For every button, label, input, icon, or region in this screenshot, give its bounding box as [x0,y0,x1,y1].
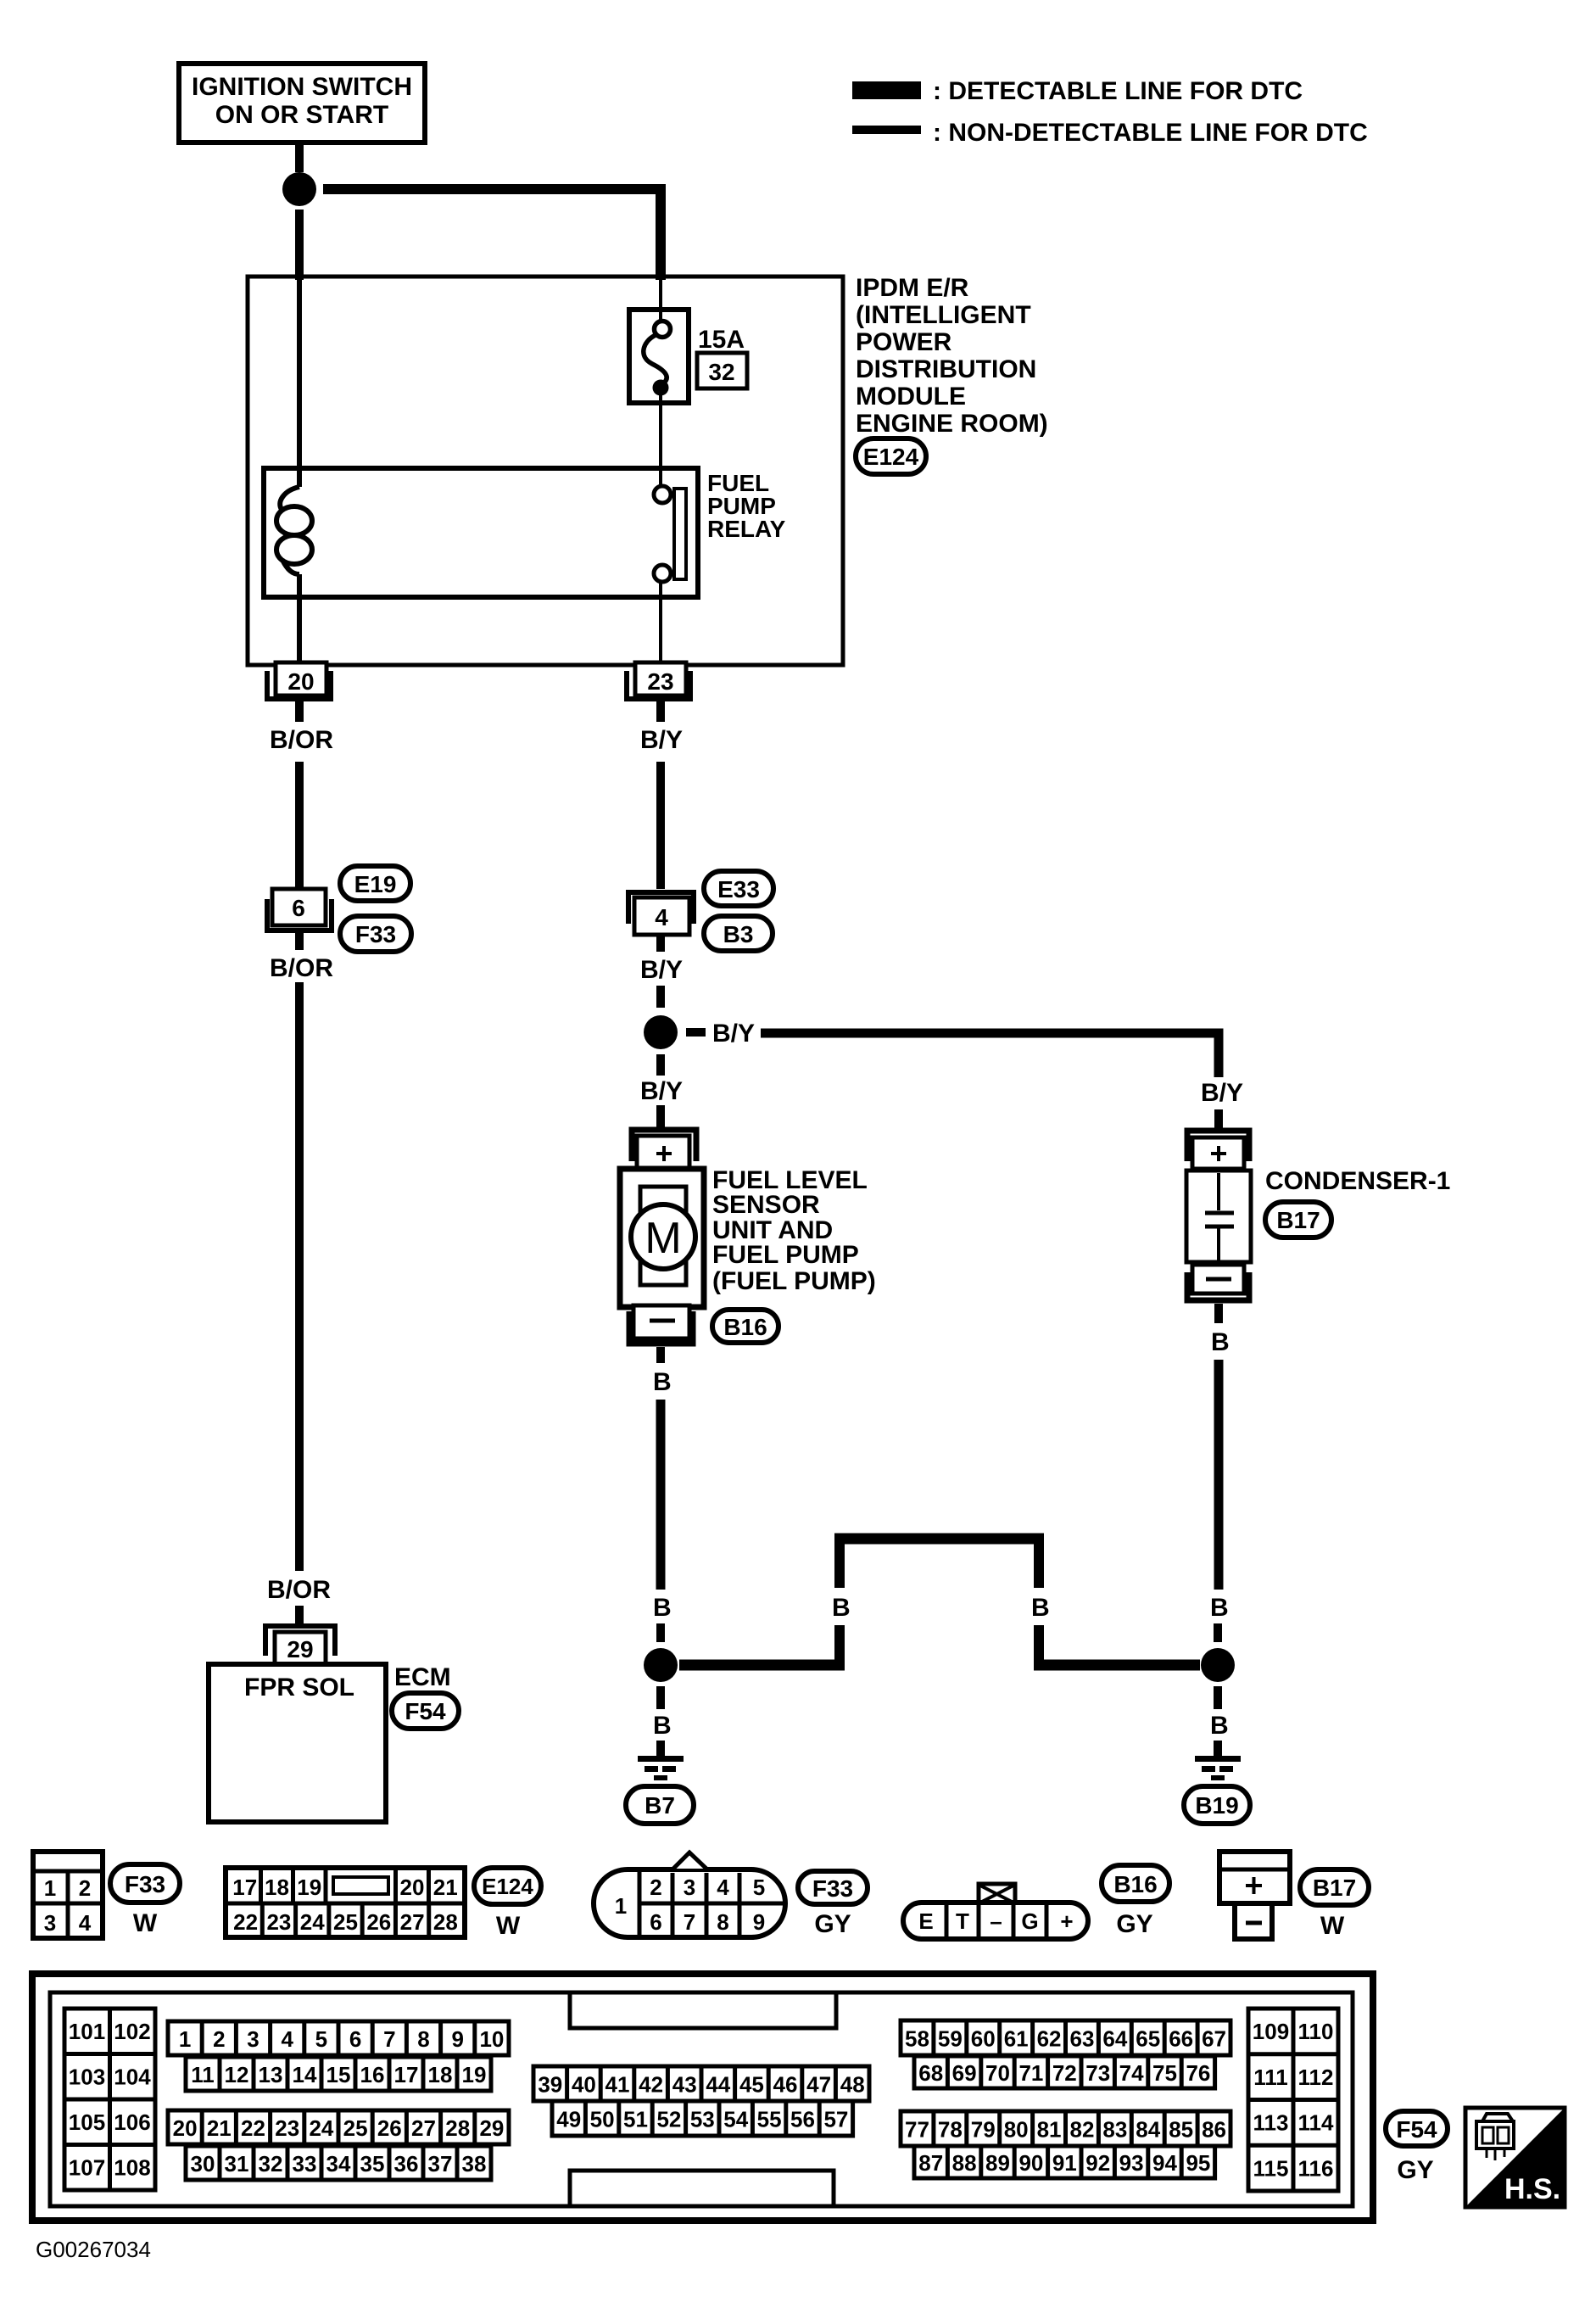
connector 6 (E19-F33) [267,889,332,930]
svg-text:B/OR: B/OR [270,954,333,982]
legend: detectable line sample + caption [852,77,1303,105]
svg-text:H.S.: H.S. [1504,2173,1560,2205]
svg-text:76: 76 [1186,2060,1210,2086]
svg-text:40: 40 [572,2072,596,2098]
wire: ignition switch to junction A [295,142,304,172]
svg-text:1: 1 [615,1893,627,1919]
svg-text:105: 105 [69,2109,105,2135]
svg-text:13: 13 [259,2062,283,2087]
svg-text:110: 110 [1298,2019,1334,2044]
svg-text:11: 11 [191,2062,215,2087]
connector view F33 oval (cavities 1-9) [594,1852,785,1937]
svg-text:62: 62 [1037,2026,1062,2052]
svg-text:4: 4 [79,1910,92,1936]
svg-text:17: 17 [232,1875,257,1900]
svg-text:58: 58 [905,2026,929,2052]
svg-text:2: 2 [79,1875,91,1901]
svg-text:B/Y: B/Y [712,1020,755,1048]
connector oval B17 [1265,1202,1331,1238]
svg-text:30: 30 [191,2151,215,2177]
svg-text:17: 17 [394,2062,419,2087]
svg-text:B: B [1210,1594,1229,1622]
wire B: bridge junction C to junction D [679,1539,1200,1665]
svg-text:B: B [1031,1594,1050,1622]
ECM view cavities 20-38 [168,2110,509,2180]
connector oval F33 (W) [110,1864,180,1937]
fuse number box 32 [697,353,747,388]
svg-text:B/Y: B/Y [640,956,683,984]
svg-text:E19: E19 [354,871,397,897]
svg-text:IPDM E/R: IPDM E/R [856,274,969,302]
svg-text:82: 82 [1069,2117,1094,2143]
svg-text:25: 25 [333,1909,358,1935]
svg-text:15: 15 [326,2062,351,2087]
svg-text:54: 54 [723,2107,748,2132]
fuel pump minus terminal [629,1305,693,1344]
svg-text:114: 114 [1298,2110,1334,2136]
figure number G00267034 [36,2237,151,2262]
svg-text:B: B [1210,1712,1229,1740]
svg-text:1: 1 [179,2026,191,2052]
svg-text:2: 2 [213,2026,225,2052]
svg-text:B19: B19 [1195,1792,1238,1819]
svg-text:24: 24 [309,2115,333,2141]
svg-text:F33: F33 [812,1875,853,1902]
svg-text:ECM: ECM [394,1663,451,1691]
relay contact [654,486,686,662]
svg-text:64: 64 [1102,2026,1127,2052]
fuel pump plus terminal [632,1130,696,1169]
svg-text:3: 3 [684,1875,695,1900]
svg-text:67: 67 [1202,2026,1226,2052]
svg-text:14: 14 [293,2062,317,2087]
svg-text:5: 5 [753,1875,765,1900]
fuel pump label [712,1166,876,1295]
svg-text:49: 49 [556,2107,581,2132]
svg-text:23: 23 [647,668,673,695]
svg-text:8: 8 [417,2026,429,2052]
svg-text:9: 9 [451,2026,463,2052]
connector oval F54 (GY) [1386,2111,1448,2184]
svg-text:3: 3 [247,2026,259,2052]
wire: junction wire to fuse top [659,280,662,322]
connector oval E124 [856,439,926,474]
svg-text:B17: B17 [1276,1207,1320,1233]
wire B/Y: pin 23 to connector 4 [640,701,683,889]
fuse 15A symbol [629,310,689,403]
svg-text:–: – [990,1908,1002,1934]
relay coil [276,487,312,662]
svg-text:43: 43 [672,2072,697,2098]
wire: junction A right and down to fuse (detectable) [323,189,661,280]
svg-text:(INTELLIGENT: (INTELLIGENT [856,301,1031,329]
svg-text:B/OR: B/OR [267,1576,331,1604]
svg-text:W: W [1320,1912,1345,1940]
svg-text:80: 80 [1004,2117,1029,2143]
svg-text:E: E [918,1908,933,1934]
svg-text:61: 61 [1004,2026,1029,2052]
svg-text:FUEL PUMP: FUEL PUMP [712,1241,859,1269]
connector oval E19 [340,866,410,901]
svg-text:W: W [496,1912,521,1940]
pin 20 of E124 [267,662,331,699]
svg-text:111: 111 [1253,2065,1288,2090]
svg-text:29: 29 [479,2115,504,2141]
svg-text:53: 53 [690,2107,715,2132]
condenser label [1265,1167,1450,1195]
svg-text:102: 102 [114,2019,150,2044]
connector oval F33 [340,916,411,952]
svg-text:32: 32 [708,359,734,385]
svg-text:B: B [653,1712,672,1740]
svg-text:38: 38 [462,2151,487,2177]
wire B: fuel pump to junction C [653,1347,672,1642]
svg-text:FPR SOL: FPR SOL [244,1674,354,1702]
svg-text:29: 29 [287,1636,313,1662]
svg-text:M: M [645,1214,681,1263]
wire B/OR: pin 20 to connector 6 [270,701,333,889]
svg-text:46: 46 [773,2072,798,2098]
svg-text:68: 68 [918,2060,943,2086]
svg-text:104: 104 [114,2065,151,2090]
svg-text:B/Y: B/Y [1201,1079,1243,1107]
svg-text:F54: F54 [1396,2116,1437,2143]
svg-text:G00267034: G00267034 [36,2237,151,2262]
svg-text:5: 5 [315,2026,327,2052]
svg-text:60: 60 [971,2026,996,2052]
svg-text:B17: B17 [1313,1875,1356,1901]
connector oval B17 (W) [1300,1869,1369,1940]
svg-text:: DETECTABLE LINE FOR DTC: : DETECTABLE LINE FOR DTC [933,77,1303,105]
connector 4 (E33-B3) [628,892,694,935]
node junction B [644,1015,678,1049]
svg-text:16: 16 [360,2062,385,2087]
node junction A [282,172,316,206]
svg-text:57: 57 [823,2107,848,2132]
condenser-1 minus terminal [1187,1265,1249,1300]
svg-text:B: B [1211,1328,1230,1356]
svg-text:37: 37 [428,2151,453,2177]
svg-text:66: 66 [1169,2026,1193,2052]
fuel pump motor M [620,1169,704,1307]
svg-text:22: 22 [241,2115,265,2141]
connector oval B7 [626,1786,694,1824]
svg-text:101: 101 [69,2019,105,2044]
pin 29 of F54 [265,1626,335,1664]
svg-text:86: 86 [1202,2117,1226,2143]
svg-text:RELAY: RELAY [707,516,786,542]
svg-text:6: 6 [650,1909,661,1935]
wire B: condenser to junction D [1210,1304,1230,1642]
svg-text:: NON-DETECTABLE LINE FOR DTC: : NON-DETECTABLE LINE FOR DTC [933,119,1368,147]
connector view F33 (cavities 1-4) [33,1852,103,1938]
svg-text:2: 2 [650,1875,661,1900]
svg-text:51: 51 [623,2107,648,2132]
ECM connector view inner frame with notches [50,1992,1353,2206]
svg-text:19: 19 [462,2062,487,2087]
svg-text:47: 47 [806,2072,831,2098]
fuel pump relay box [264,468,698,597]
svg-text:21: 21 [433,1875,458,1900]
svg-text:90: 90 [1018,2150,1043,2176]
svg-text:84: 84 [1136,2117,1160,2143]
legend: non-detectable line sample + caption [852,119,1368,147]
svg-text:T: T [956,1908,969,1934]
svg-text:28: 28 [445,2115,470,2141]
svg-text:10: 10 [479,2026,504,2052]
svg-text:ENGINE ROOM): ENGINE ROOM) [856,410,1048,438]
svg-text:92: 92 [1085,2150,1110,2176]
svg-text:18: 18 [265,1875,289,1900]
svg-text:18: 18 [428,2062,453,2087]
svg-text:4: 4 [281,2026,293,2052]
svg-text:89: 89 [985,2150,1010,2176]
svg-text:MODULE: MODULE [856,383,966,411]
svg-text:IGNITION SWITCH: IGNITION SWITCH [192,73,412,101]
ECM label [394,1663,451,1691]
svg-text:88: 88 [952,2150,977,2176]
ignition switch box [179,64,425,142]
svg-text:E124: E124 [863,444,919,470]
svg-text:59: 59 [938,2026,963,2052]
svg-text:GY: GY [814,1910,851,1938]
svg-text:24: 24 [300,1909,325,1935]
svg-text:B7: B7 [645,1792,675,1819]
svg-text:55: 55 [757,2107,782,2132]
ECM view cavities 1-19 [168,2021,509,2091]
svg-text:SENSOR: SENSOR [712,1191,820,1219]
ECM connector view outer frame [32,1974,1373,2221]
svg-text:85: 85 [1169,2117,1193,2143]
node junction C [644,1648,678,1682]
svg-text:20: 20 [400,1875,425,1900]
svg-text:B16: B16 [723,1314,767,1340]
svg-text:27: 27 [400,1909,425,1935]
svg-text:39: 39 [538,2072,562,2098]
svg-text:106: 106 [114,2109,150,2135]
svg-text:71: 71 [1018,2060,1043,2086]
svg-text:87: 87 [918,2150,943,2176]
svg-text:ON OR START: ON OR START [215,101,388,129]
svg-text:65: 65 [1136,2026,1160,2052]
ground B7 [638,1756,684,1780]
svg-text:50: 50 [590,2107,615,2132]
svg-text:23: 23 [266,1909,291,1935]
svg-text:36: 36 [394,2151,419,2177]
svg-text:4: 4 [717,1875,729,1900]
svg-text:7: 7 [383,2026,395,2052]
svg-text:79: 79 [971,2117,996,2143]
svg-text:4: 4 [655,904,668,930]
wire B/Y dashed: connector 4 to junction B [640,933,683,1008]
svg-text:81: 81 [1037,2117,1062,2143]
svg-text:78: 78 [938,2117,963,2143]
connector view E124 (cavities 17-28) [226,1868,465,1937]
svg-text:72: 72 [1052,2060,1077,2086]
ECM view cavities 58-76 [901,2020,1230,2088]
svg-text:B: B [653,1594,672,1622]
svg-text:69: 69 [952,2060,977,2086]
svg-text:112: 112 [1298,2065,1334,2090]
svg-text:GY: GY [1116,1910,1152,1938]
svg-text:33: 33 [293,2151,317,2177]
relay label [707,470,786,542]
svg-text:22: 22 [233,1909,258,1935]
svg-text:GY: GY [1397,2156,1433,2184]
pin 23 of E124 [627,662,690,699]
svg-text:8: 8 [717,1909,728,1935]
node junction D [1201,1648,1235,1682]
svg-text:21: 21 [207,2115,232,2141]
connector oval B16 [712,1310,778,1343]
svg-text:F33: F33 [125,1871,165,1897]
wire: fuse to relay contact [659,390,662,486]
svg-text:113: 113 [1253,2110,1289,2136]
wire B/OR: connector 6 to ECM pin 29 [267,930,333,1623]
condenser-1 plus terminal [1187,1131,1249,1169]
connector oval E33 [704,871,773,906]
svg-text:109: 109 [1253,2019,1289,2044]
ground B19 [1195,1756,1241,1780]
ECM view grid 101-108 [64,2009,155,2190]
svg-text:93: 93 [1119,2150,1144,2176]
svg-text:41: 41 [605,2072,630,2098]
svg-text:(FUEL PUMP): (FUEL PUMP) [712,1267,876,1295]
svg-text:DISTRIBUTION: DISTRIBUTION [856,355,1036,383]
connector oval B3 [704,916,773,951]
svg-text:35: 35 [360,2151,385,2177]
svg-text:115: 115 [1253,2155,1289,2181]
svg-text:E33: E33 [717,876,760,902]
svg-text:34: 34 [326,2151,351,2177]
svg-text:B3: B3 [723,921,754,947]
wire B: junction C to ground B7 [653,1686,672,1756]
condenser-1 capacitor body [1186,1171,1251,1262]
svg-text:B/Y: B/Y [640,1077,683,1105]
svg-text:G: G [1021,1908,1038,1934]
svg-text:F54: F54 [405,1698,446,1724]
svg-text:73: 73 [1085,2060,1110,2086]
svg-text:27: 27 [411,2115,436,2141]
svg-text:32: 32 [259,2151,283,2177]
wire: IPDM top edge to relay coil [297,280,302,487]
svg-text:+: + [1060,1908,1073,1934]
svg-text:POWER: POWER [856,328,952,356]
svg-text:28: 28 [433,1909,458,1935]
IPDM E/R box E124 [248,277,843,665]
svg-text:E124: E124 [482,1874,533,1899]
connector view B17 (+/-) [1219,1852,1290,1939]
ECM view cavities 77-95 [901,2111,1230,2178]
svg-text:70: 70 [985,2060,1010,2086]
svg-text:26: 26 [377,2115,402,2141]
svg-text:15A: 15A [698,326,745,354]
svg-text:77: 77 [905,2117,929,2143]
svg-text:26: 26 [366,1909,391,1935]
svg-text:107: 107 [69,2155,105,2181]
svg-text:83: 83 [1102,2117,1127,2143]
connector oval F33 (GY) [798,1871,868,1938]
svg-text:91: 91 [1052,2150,1077,2176]
svg-text:94: 94 [1152,2150,1177,2176]
svg-text:63: 63 [1069,2026,1094,2052]
svg-text:25: 25 [343,2115,368,2141]
svg-text:52: 52 [656,2107,681,2132]
svg-text:1: 1 [44,1875,56,1901]
svg-text:7: 7 [684,1909,695,1935]
connector oval E124 (W) [474,1868,541,1940]
fuse value label 15A [698,326,745,354]
connector oval B16 (GY) [1102,1865,1169,1938]
wire B: junction D to ground B19 [1210,1686,1229,1756]
svg-text:W: W [133,1909,158,1937]
connector oval F54 [392,1693,459,1729]
ECM view grid 109-116 [1248,2009,1338,2191]
svg-text:19: 19 [297,1875,321,1900]
svg-text:B16: B16 [1113,1871,1157,1897]
svg-text:23: 23 [275,2115,299,2141]
svg-text:B/Y: B/Y [640,726,683,754]
connector view B16 (E T - G +) [903,1884,1088,1939]
svg-text:48: 48 [840,2072,865,2098]
svg-text:3: 3 [44,1910,56,1936]
svg-text:CONDENSER-1: CONDENSER-1 [1265,1167,1450,1195]
svg-text:74: 74 [1119,2060,1144,2086]
svg-text:95: 95 [1186,2150,1210,2176]
connector oval B19 [1184,1786,1250,1824]
svg-text:9: 9 [753,1909,765,1935]
svg-text:75: 75 [1152,2060,1177,2086]
svg-text:20: 20 [287,668,314,695]
H.S. logo [1465,2108,1565,2207]
wire: junction A down to IPDM (detectable) [295,210,304,280]
svg-text:B: B [832,1594,851,1622]
svg-text:B/OR: B/OR [270,726,333,754]
svg-text:20: 20 [173,2115,198,2141]
svg-text:44: 44 [706,2072,730,2098]
svg-text:B: B [653,1368,672,1396]
svg-text:31: 31 [225,2151,249,2177]
svg-text:56: 56 [790,2107,815,2132]
svg-text:103: 103 [69,2065,105,2090]
svg-text:116: 116 [1298,2155,1334,2181]
svg-text:12: 12 [225,2062,249,2087]
svg-text:6: 6 [292,895,305,921]
svg-text:F33: F33 [355,921,396,947]
svg-text:45: 45 [739,2072,764,2098]
svg-text:108: 108 [114,2155,150,2181]
wire B/Y dashed: junction B to fuel pump [640,1054,683,1128]
svg-text:42: 42 [639,2072,663,2098]
ECM view cavities 39-57 [533,2066,869,2136]
wire B/Y: junction B right branch to condenser [686,1020,1243,1128]
ECM box with FPR SOL [209,1664,386,1822]
svg-text:6: 6 [349,2026,361,2052]
IPDM E/R label [856,274,1048,438]
